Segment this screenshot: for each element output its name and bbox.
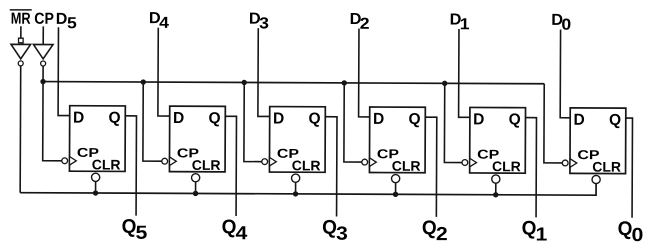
wire MR input stub [20, 26, 22, 38]
output label Q0 [618, 218, 644, 245]
bubble on CP input of FF2 [362, 159, 368, 165]
wire CLR feed of FF1 [495, 183, 497, 195]
output label Q4 [222, 216, 249, 244]
svg-text:CP: CP [34, 10, 54, 28]
junction dot CP bus at FF1 [442, 81, 447, 86]
wire CP feed to FF2 [344, 83, 362, 162]
junction dot CP bus at U2 output [40, 79, 45, 84]
overline for MR (active-low bar) [10, 9, 32, 11]
clock wedge of FF3 [269, 157, 276, 166]
svg-text:Q: Q [222, 216, 237, 239]
svg-text:Q: Q [509, 111, 521, 128]
wire CLR feed of FF5 [95, 181, 97, 193]
svg-text:CLR: CLR [592, 159, 621, 175]
clock wedge of FF5 [69, 157, 76, 166]
svg-text:CLR: CLR [192, 157, 221, 173]
wire CP feed to FF4 [143, 82, 162, 161]
wire CP feed to FF1 [444, 83, 462, 162]
wire Q1 output [525, 118, 536, 218]
svg-text:CLR: CLR [92, 156, 121, 172]
svg-text:1: 1 [536, 225, 548, 245]
input label D0 [551, 11, 571, 33]
junction dot MR bus at FF1 [493, 192, 498, 197]
junction dot MR bus at FF3 [293, 191, 298, 196]
clock wedge of FF0 [570, 159, 577, 168]
bubble on CLR input of FF0 [592, 175, 600, 183]
bubble on CLR input of FF2 [392, 175, 400, 183]
input label D3 [249, 10, 269, 32]
wire D1 input [459, 29, 471, 117]
input label D1 [450, 11, 470, 33]
svg-text:D: D [73, 109, 84, 126]
wire MR clear bus [20, 181, 596, 195]
svg-text:CLR: CLR [392, 158, 421, 174]
bubble on CLR input of FF3 [292, 174, 300, 182]
svg-text:0: 0 [561, 15, 571, 33]
svg-text:2: 2 [436, 224, 448, 245]
clock wedge of FF1 [470, 158, 477, 167]
D flip-flop FF3 [269, 107, 325, 173]
bubble on CLR input of FF1 [492, 175, 500, 183]
wire CP feed to FF5 [43, 66, 63, 161]
svg-text:5: 5 [67, 14, 77, 32]
wire D0 input [560, 29, 570, 117]
output label Q1 [522, 217, 548, 245]
D flip-flop FF4 [169, 106, 225, 172]
svg-text:D: D [473, 111, 484, 128]
wire CLR feed of FF2 [395, 183, 397, 195]
wire D2 input [359, 29, 370, 117]
svg-text:D: D [573, 112, 584, 129]
junction dot CP bus at FF2 [342, 80, 347, 85]
polarity square on MR input [19, 38, 24, 43]
wire CP feed to FF0 [544, 84, 563, 163]
junction dot CP bus at FF3 [242, 80, 247, 85]
D flip-flop FF0 [570, 108, 626, 174]
svg-text:CLR: CLR [292, 157, 321, 173]
svg-text:Q: Q [108, 110, 120, 127]
svg-text:D: D [173, 110, 184, 127]
svg-text:MR: MR [11, 10, 31, 28]
junction dot MR bus at FF2 [393, 192, 398, 197]
svg-text:3: 3 [336, 224, 348, 245]
wire CP feed to FF3 [244, 82, 262, 161]
svg-text:0: 0 [632, 225, 644, 245]
wire Q2 output [425, 117, 437, 217]
D flip-flop FF5 [69, 106, 125, 172]
input label D5 [56, 11, 77, 32]
wire Q0 output [625, 118, 632, 218]
svg-text:Q: Q [122, 216, 137, 239]
bubble on CP input of FF4 [162, 158, 168, 164]
wire CP distribution bus [43, 82, 544, 84]
svg-text:Q: Q [208, 110, 220, 127]
svg-text:Q: Q [522, 217, 537, 240]
svg-text:D: D [373, 111, 384, 128]
wire CLR feed of FF3 [295, 182, 297, 194]
svg-text:Q: Q [618, 218, 633, 241]
svg-text:D: D [56, 11, 68, 28]
junction dot MR bus at FF4 [193, 191, 198, 196]
svg-text:Q: Q [422, 217, 437, 240]
svg-text:CLR: CLR [492, 158, 521, 174]
bubble on CLR input of FF5 [92, 173, 100, 181]
D flip-flop FF1 [470, 107, 526, 173]
bubble on CP input of FF3 [262, 159, 268, 165]
bubble on CLR input of FF4 [192, 174, 200, 182]
wire Q4 output [225, 116, 237, 216]
wire D3 input [258, 28, 270, 116]
svg-text:Q: Q [308, 110, 320, 127]
svg-text:4: 4 [236, 223, 249, 244]
bubble on CP input of FF0 [562, 160, 568, 166]
wire Q5 output [125, 116, 137, 216]
svg-text:4: 4 [159, 14, 170, 32]
svg-text:5: 5 [136, 223, 148, 244]
svg-text:Q: Q [322, 216, 337, 239]
wire D5 input [58, 27, 70, 115]
bubble on CP input of FF1 [462, 160, 468, 166]
svg-text:D: D [273, 110, 284, 127]
svg-text:Q: Q [609, 112, 621, 129]
output label Q2 [422, 217, 448, 245]
svg-text:1: 1 [460, 15, 470, 33]
inverter U1 (MR buffer) [11, 44, 31, 58]
svg-text:Q: Q [408, 111, 420, 128]
wire D4 input [158, 28, 170, 116]
wire Q3 output [325, 117, 337, 217]
inverter U2 (CP buffer) [33, 44, 53, 58]
clock wedge of FF2 [369, 158, 376, 167]
svg-text:3: 3 [259, 14, 269, 32]
wire MR vertical rail [19, 66, 22, 193]
output label Q3 [322, 216, 348, 244]
input label D4 [149, 9, 170, 31]
junction dot MR bus at FF5 [93, 190, 98, 195]
bubble on CP input of FF5 [62, 158, 68, 164]
wire CP input stub [42, 26, 44, 44]
D flip-flop FF2 [369, 107, 425, 173]
wire CLR feed of FF4 [195, 182, 197, 194]
input label D2 [350, 10, 370, 32]
svg-text:2: 2 [360, 14, 370, 32]
output label Q5 [122, 216, 148, 244]
junction dot CP bus at FF4 [141, 79, 146, 84]
clock wedge of FF4 [169, 157, 176, 166]
bubble on U2 output [41, 61, 46, 66]
bubble on U1 output [18, 61, 23, 66]
